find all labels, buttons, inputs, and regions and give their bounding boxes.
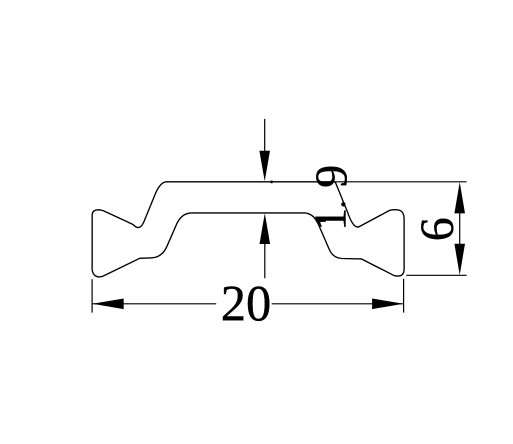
svg-text:20: 20 <box>221 276 272 332</box>
extension line top (6 dim) <box>334 181 466 183</box>
profile outline <box>92 182 404 277</box>
thickness dim upper leader line <box>264 119 266 152</box>
6 dim arrow up <box>454 182 465 213</box>
extension line bottom (6 dim) <box>406 274 466 276</box>
6 dim arrow down <box>454 244 465 275</box>
20 dim line right segment <box>272 303 404 305</box>
thickness dim lower leader line <box>264 244 266 278</box>
defpoint dot on top line <box>270 181 273 184</box>
thickness text digit 1 stem extension <box>316 219 326 222</box>
20 dim line left segment <box>92 303 216 305</box>
thickness text decimal point <box>341 202 345 206</box>
svg-text:9: 9 <box>306 165 357 188</box>
thickness dim upper arrow (down) <box>259 151 270 182</box>
20 dim extension line right <box>403 279 405 313</box>
svg-text:6: 6 <box>411 217 464 241</box>
20 dim extension line left <box>91 279 93 312</box>
20 dim arrow right <box>372 299 403 310</box>
20 dim arrow left <box>92 299 123 310</box>
svg-text:1: 1 <box>305 208 356 231</box>
6 dim line <box>459 213 461 244</box>
thickness dim lower arrow (up) <box>260 213 271 244</box>
